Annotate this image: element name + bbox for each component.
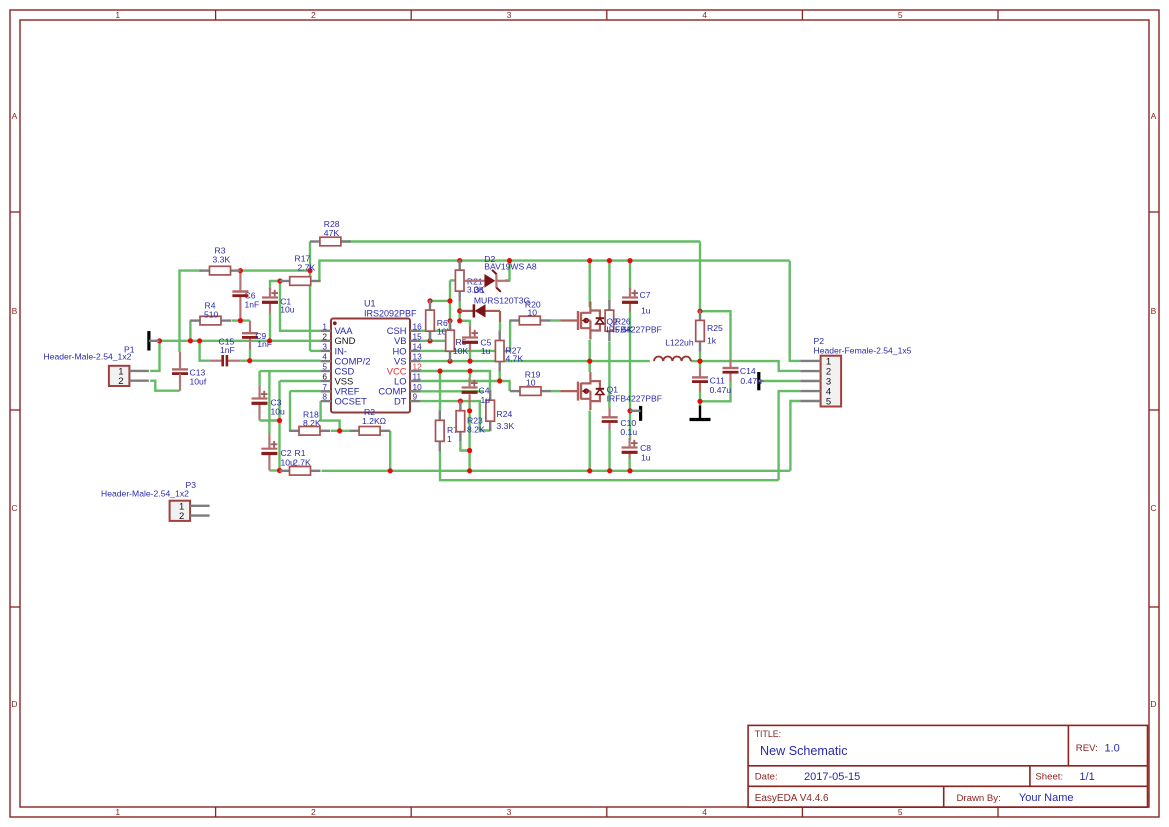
svg-text:5: 5 (322, 362, 327, 372)
wire R17-left to C1-top (270, 281, 280, 290)
wire VREF down to R18 (289, 391, 291, 431)
svg-text:1nF: 1nF (220, 345, 235, 355)
capacitor C9 (242, 333, 258, 337)
border column tick top (997, 10, 999, 20)
resistor R21 (455, 260, 464, 301)
wire Q2-drain to bus (589, 261, 591, 307)
capacitor C10 (602, 417, 618, 421)
wire R2-right down (389, 431, 391, 471)
U1 pin 12 VCC (387, 362, 422, 377)
wire Q1-drain to VS node (589, 361, 591, 372)
junction Q2-source/Q1-drain/VS (587, 359, 592, 364)
wire C7-top to bus (629, 261, 631, 290)
wire to C5-top (460, 321, 470, 326)
op-amp U1 IRS2092PBF body (331, 319, 410, 413)
border column tick top (410, 10, 412, 20)
U1 pin 7 VREF (321, 382, 360, 397)
resistor R5 (446, 320, 455, 361)
wire R21-bottom to C5 node (459, 301, 461, 321)
svg-text:Header-Female-2.54_1x5: Header-Female-2.54_1x5 (814, 346, 912, 356)
U1 pin 16 CSH (387, 321, 422, 336)
svg-text:2: 2 (311, 807, 316, 817)
wire VS output line left (420, 360, 649, 362)
svg-text:IRS2092PBF: IRS2092PBF (364, 308, 417, 318)
svg-text:DT: DT (394, 396, 407, 407)
svg-text:Sheet:: Sheet: (1035, 772, 1063, 783)
wire VCC pin12 to R24 (420, 371, 490, 391)
svg-text:R24: R24 (497, 409, 513, 419)
wire C15-right (240, 360, 250, 362)
U1 pin 6 VSS (321, 372, 354, 387)
wire P2 pin5 vertical (790, 401, 800, 471)
wire P1 pin1 up to GND line (150, 341, 159, 371)
resistor R3 (200, 266, 241, 275)
junction D2-cathode (507, 258, 512, 263)
svg-text:5.6K: 5.6K (615, 325, 633, 335)
junction R5 net top (447, 298, 452, 303)
svg-text:0.47u: 0.47u (710, 385, 732, 395)
junction R7-top/VCC (437, 368, 442, 373)
wire R25-top to C14-top (700, 311, 731, 359)
junction GND bar / P1.1 (157, 338, 162, 343)
capacitor C5 top lead (469, 326, 471, 338)
wire C11-top stub (699, 361, 701, 368)
border column tick bottom (606, 807, 608, 817)
svg-text:1: 1 (115, 807, 120, 817)
capacitor C11 (692, 377, 708, 381)
wire R3-left to C13-top (180, 271, 203, 352)
svg-text:22uh: 22uh (675, 337, 694, 347)
junction C1-bottom (267, 338, 272, 343)
svg-text:16: 16 (413, 321, 423, 331)
svg-text:1u: 1u (481, 346, 491, 356)
wire R6-bottom stub (429, 331, 431, 341)
capacitor C7 top lead (629, 288, 631, 298)
U1 pin 4 COMP/2 (321, 352, 371, 367)
diode D1 MURS120T3G (460, 304, 500, 317)
svg-text:1/1: 1/1 (1079, 771, 1094, 783)
capacitor C6 (232, 292, 248, 296)
capacitor C1 top lead (269, 288, 271, 298)
svg-text:C7: C7 (640, 290, 651, 300)
svg-text:B: B (12, 306, 18, 316)
svg-text:U1: U1 (364, 299, 376, 309)
capacitor C13 bottom lead (179, 374, 181, 391)
junction R3-right/C6 (238, 268, 243, 273)
capacitor C10 top lead (608, 408, 610, 417)
junction R23-top/DT (458, 399, 463, 404)
junction R26-top/bus (607, 258, 612, 263)
wire R4-left to GND line (189, 321, 191, 341)
svg-text:EasyEDA V4.4.6: EasyEDA V4.4.6 (755, 793, 829, 804)
border column tick top (606, 10, 608, 20)
svg-text:14: 14 (413, 341, 423, 351)
border row tick right (1149, 409, 1159, 411)
svg-text:10u: 10u (280, 305, 295, 315)
border column tick top (801, 10, 803, 20)
svg-text:13: 13 (413, 352, 423, 362)
wire DT pin9 to R24-bottom (420, 401, 490, 430)
svg-text:1.0: 1.0 (1105, 743, 1120, 755)
wire LO pin11 to R19 (420, 381, 509, 391)
U1 pin 1 VAA (321, 321, 354, 336)
wire rail y480 from R7 (440, 451, 779, 480)
junction R23-bottom (467, 448, 472, 453)
junction R21-top (457, 258, 462, 263)
svg-text:2: 2 (179, 511, 184, 522)
wire P1 pin2 to C13-bottom (150, 381, 180, 391)
capacitor C2 (261, 441, 277, 454)
resistor R19 (510, 387, 551, 396)
wire R18-R2 node (331, 430, 349, 432)
svg-text:3.3K: 3.3K (213, 255, 231, 265)
wire R25-bottom to VS (699, 351, 701, 361)
svg-text:510: 510 (204, 310, 219, 320)
svg-text:New Schematic: New Schematic (760, 744, 848, 758)
wire D1-anode down to R27 (499, 322, 501, 331)
junction C11/C14 gnd node (697, 399, 702, 404)
svg-text:12: 12 (413, 362, 423, 372)
ground symbol below C11 (690, 406, 711, 420)
svg-text:5: 5 (898, 10, 903, 20)
svg-text:1: 1 (447, 434, 452, 444)
svg-text:3.3K: 3.3K (497, 421, 515, 431)
U1 pin1 orientation dot (333, 321, 337, 325)
svg-text:4: 4 (702, 807, 707, 817)
wire R20 to Q2 gate (550, 319, 561, 321)
wire VSS pin6 (280, 380, 321, 382)
junction OCSET/R18/R2 (337, 428, 342, 433)
svg-text:8.2K: 8.2K (467, 425, 485, 435)
border row tick left (10, 409, 20, 411)
capacitor C2 bottom lead (268, 454, 270, 471)
svg-text:Drawn By:: Drawn By: (957, 793, 1001, 804)
svg-text:L1: L1 (665, 337, 675, 347)
capacitor C4 (462, 380, 478, 393)
border column tick bottom (997, 807, 999, 817)
capacitor C13 top lead (179, 352, 181, 369)
ground bar at input (P1) (149, 331, 160, 350)
capacitor C11 bottom lead (699, 383, 701, 392)
wire C8-bottom to rail (628, 457, 630, 471)
wire R5 vertical net (449, 280, 451, 330)
svg-text:1u: 1u (641, 452, 651, 462)
wire R23-bottom to C4 net (460, 442, 469, 451)
wire GND to C15-left (200, 341, 210, 361)
wire OCSET pin8 (321, 401, 340, 431)
svg-text:A: A (1151, 111, 1157, 121)
wire R28-left / IN- vertical (309, 242, 311, 351)
wire VSS vertical (278, 381, 280, 471)
junction C2-bottom/R1-left (277, 468, 282, 473)
wire negative rail y471 (322, 470, 791, 472)
inductor L1 22uh (654, 356, 691, 361)
svg-text:1: 1 (115, 10, 120, 20)
svg-text:OCSET: OCSET (335, 396, 368, 407)
wire R19 to Q1 gate (550, 390, 560, 392)
svg-text:C11: C11 (710, 375, 725, 385)
wire gnd node to C14-bottom (700, 382, 731, 401)
wire VAA pin1 (280, 281, 321, 331)
svg-text:Header-Male-2.54_1x2: Header-Male-2.54_1x2 (101, 489, 189, 499)
svg-text:1u: 1u (641, 306, 651, 316)
wire VB pin15 (420, 340, 445, 342)
U1 pin 2 GND (321, 331, 356, 346)
capacitor C10 bottom lead (608, 422, 610, 431)
wire C9-bottom to COMP/2 (249, 349, 251, 361)
capacitor C8 top lead (628, 438, 630, 448)
svg-text:R25: R25 (707, 323, 723, 333)
junction C5-top net (457, 318, 462, 323)
wire VS output to P2 pin2 (691, 361, 800, 371)
capacitor C7 bottom lead (629, 303, 631, 312)
border column tick bottom (410, 807, 412, 817)
wire R3-right to IN- net (240, 269, 310, 271)
wire feedback down to R25 (699, 242, 701, 312)
wire Q2-source to VS node (589, 340, 591, 361)
U1 pin 8 OCSET (321, 392, 367, 407)
junction D1-cathode/R21 (457, 308, 462, 313)
svg-text:TITLE:: TITLE: (755, 729, 781, 739)
connector P2 Header-Female-2.54_1x5 (800, 356, 841, 408)
wire COMP pin10 (420, 390, 484, 392)
junction C7-top/bus (627, 258, 632, 263)
U1 pin 14 HO (392, 341, 422, 356)
wire D1-anode lead down (499, 311, 501, 322)
svg-text:11: 11 (413, 372, 422, 382)
svg-text:REV:: REV: (1076, 743, 1098, 754)
U1 pin 3 IN- (321, 341, 347, 356)
wire P2 pin3 from gnd bar (764, 380, 800, 382)
svg-text:0.1u: 0.1u (620, 427, 637, 437)
junction R5-bottom/VS (447, 359, 452, 364)
wire CSD down to C3-top (258, 371, 260, 386)
svg-text:A: A (12, 111, 18, 121)
wire C2-top vertical (268, 371, 270, 433)
svg-text:10: 10 (528, 307, 538, 317)
resistor R20 (509, 316, 550, 325)
wire Q1-source to rail (589, 411, 591, 471)
svg-text:2: 2 (322, 331, 327, 341)
junction C15 drop (197, 338, 202, 343)
capacitor C14 bottom lead (729, 373, 731, 382)
capacitor C4 top lead (469, 378, 471, 388)
junction C4 net/rail (467, 468, 472, 473)
svg-text:D: D (1150, 699, 1156, 709)
wire VCC to R7-top (439, 371, 441, 410)
resistor R2 (349, 427, 390, 436)
svg-text:3: 3 (322, 341, 327, 351)
junction R5-top pin (447, 318, 452, 323)
capacitor C2 top lead (268, 433, 270, 449)
capacitor C3 top lead (259, 386, 261, 399)
resistor R1 (280, 467, 321, 476)
border column tick bottom (215, 807, 217, 817)
wire R27-bottom to LO line (499, 371, 501, 381)
U1 pin 9 DT (394, 392, 420, 407)
capacitor C5 (462, 330, 478, 343)
wire R26-bottom to C10 (608, 342, 610, 409)
junction C15/C9/COMP2 (247, 358, 252, 363)
wire HO pin14 to R20 (420, 321, 510, 351)
border row tick left (10, 606, 20, 608)
ground bar at P2 pin3 (759, 372, 764, 390)
svg-text:4.7K: 4.7K (506, 354, 524, 364)
svg-text:1nF: 1nF (257, 339, 272, 349)
connector P3 Header-Male-2.54_1x2 (170, 501, 210, 522)
svg-text:2.7K: 2.7K (293, 457, 311, 467)
junction C10/rail (607, 468, 612, 473)
svg-text:D: D (11, 699, 17, 709)
resistor R17 (280, 277, 321, 286)
svg-text:4: 4 (702, 10, 707, 20)
svg-text:C: C (11, 503, 17, 513)
junction R4-right/C6/C9 (238, 318, 243, 323)
svg-text:4: 4 (322, 352, 327, 362)
capacitor C1 bottom lead (269, 303, 271, 313)
capacitor C8 (622, 440, 638, 453)
title block frame (748, 725, 1147, 807)
svg-text:1: 1 (322, 321, 327, 331)
svg-text:3: 3 (507, 10, 512, 20)
resistor R6 (426, 300, 435, 341)
wire GND line pin2 (160, 340, 321, 342)
resistor R25 (696, 310, 705, 351)
svg-text:10uf: 10uf (190, 377, 207, 387)
svg-text:Header-Male-2.54_1x2: Header-Male-2.54_1x2 (44, 352, 132, 362)
svg-text:C14: C14 (740, 366, 756, 376)
svg-text:Date:: Date: (755, 772, 778, 783)
svg-text:6: 6 (322, 372, 327, 382)
wire C10-bottom to rail (608, 430, 610, 471)
resistor R28 (310, 237, 351, 246)
junction L1/R25/C11/VS (697, 359, 702, 364)
wire C7-bottom to C8 (629, 312, 631, 440)
U1 pin 11 LO (394, 372, 422, 387)
svg-text:10K: 10K (453, 346, 469, 356)
U1 pin 5 CSD (321, 362, 355, 377)
wire C1-bottom to GND line (269, 313, 271, 341)
resistor R18 (289, 427, 330, 436)
ground bar near C10 (630, 406, 641, 421)
wire VREF pin7 (290, 390, 321, 392)
wire R28-right feedback line (341, 240, 700, 242)
capacitor C6 top lead (239, 271, 241, 292)
wire bus down to P2 pin1 (790, 261, 801, 361)
svg-text:BAV19WS A8: BAV19WS A8 (484, 261, 537, 271)
transistor Q2 (561, 302, 605, 340)
junction IN- net (307, 268, 312, 273)
wire IN- pin3 stub wire (310, 350, 321, 352)
border row tick left (10, 211, 20, 213)
wire CSD pin5 (260, 370, 321, 372)
diode D2 BAV19WS (465, 270, 510, 292)
border column tick bottom (801, 807, 803, 817)
capacitor C4 bottom lead (469, 394, 471, 403)
svg-text:5: 5 (826, 397, 831, 408)
svg-text:7: 7 (322, 382, 327, 392)
junction C8/rail (627, 468, 632, 473)
capacitor C9 top lead (249, 321, 251, 334)
svg-text:47K: 47K (324, 228, 340, 238)
wire C5-bottom to VS (469, 352, 471, 361)
svg-text:10: 10 (413, 382, 423, 392)
svg-text:1k: 1k (707, 336, 717, 346)
capacitor C1 (262, 290, 278, 303)
junction C5-bottom/VS (467, 359, 472, 364)
wire R6-top to R5-top (430, 300, 450, 302)
svg-text:Your Name: Your Name (1019, 792, 1074, 804)
capacitor C13 (172, 369, 188, 373)
border column tick top (215, 10, 217, 20)
junction R4-left (188, 338, 193, 343)
svg-text:8: 8 (322, 392, 327, 402)
svg-text:1nF: 1nF (245, 299, 260, 309)
svg-text:2017-05-15: 2017-05-15 (804, 771, 860, 783)
junction R6-bottom/VB (427, 338, 432, 343)
junction C4-bottom wire (467, 408, 472, 413)
wire R26-top to bus (608, 261, 610, 301)
capacitor C7 (622, 290, 638, 303)
svg-text:10: 10 (526, 377, 536, 387)
wire D2-anode net (450, 279, 465, 281)
U1 pin 10 COMP (378, 382, 422, 397)
capacitor C15 (210, 355, 240, 366)
svg-text:2: 2 (118, 376, 123, 387)
svg-text:2.7K: 2.7K (298, 263, 316, 273)
junction Q2-drain/bus (587, 258, 592, 263)
resistor R4 (190, 316, 231, 325)
junction R6-top (427, 298, 432, 303)
svg-text:10u: 10u (271, 407, 286, 417)
connector P1 Header-Male-2.54_1x2 (109, 366, 149, 387)
junction R27/LO (497, 378, 502, 383)
svg-text:C: C (1150, 503, 1156, 513)
junction Q1-source/rail (587, 468, 592, 473)
U1 pin 13 VS (394, 352, 422, 367)
resistor R24 (486, 390, 495, 431)
svg-text:B: B (1151, 306, 1157, 316)
wire CSH pin16 (420, 330, 450, 332)
svg-text:15: 15 (413, 331, 423, 341)
junction VSS/C3-bottom (277, 418, 282, 423)
junction R25-top (697, 309, 702, 314)
border row tick right (1149, 211, 1159, 213)
transistor Q1 (561, 372, 605, 410)
svg-text:0.47u: 0.47u (740, 376, 762, 386)
wire VCC bus y260 (319, 261, 789, 281)
capacitor C14 top lead (729, 359, 731, 368)
wire COMP/2 pin4 (250, 360, 321, 362)
junction R17-left/C1/VAA (277, 278, 282, 283)
svg-text:D1: D1 (474, 285, 485, 295)
U1 pin 15 VB (394, 331, 422, 346)
svg-text:9: 9 (413, 392, 418, 402)
wire R4-right to C9-top (232, 319, 251, 321)
capacitor C6 bottom lead (239, 296, 241, 321)
capacitor C8 bottom lead (628, 452, 630, 458)
wire D2-cathode up to bus (505, 261, 510, 281)
svg-text:2: 2 (311, 10, 316, 20)
resistor R27 (495, 331, 504, 372)
resistor R7 (436, 410, 445, 451)
resistor R23 (456, 401, 465, 442)
capacitor C5 bottom lead (469, 343, 471, 353)
svg-text:1.2KΩ: 1.2KΩ (362, 416, 387, 426)
resistor R26 (605, 300, 614, 341)
junction R2 net to rail (388, 468, 393, 473)
wire C3-bottom to VSS net (260, 419, 280, 421)
